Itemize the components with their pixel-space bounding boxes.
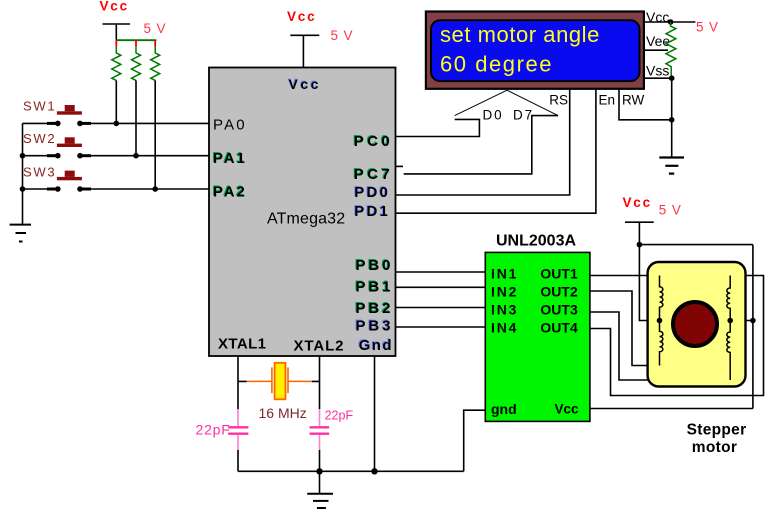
svg-text:16 MHz: 16 MHz <box>259 405 307 421</box>
resistor R3 <box>151 40 160 189</box>
svg-text:D0: D0 <box>483 108 504 123</box>
power symbol VCC2 bar <box>290 34 319 36</box>
crystal X1 ticks <box>238 380 320 382</box>
wire LCD Vee <box>644 49 668 51</box>
node LCD Vss junction <box>669 75 675 81</box>
wire VCC2 to chip <box>302 35 304 67</box>
wire XTAL1 down <box>237 356 239 409</box>
svg-text:En: En <box>599 93 616 108</box>
wire ground stub <box>319 471 321 494</box>
svg-text:IN2: IN2 <box>491 283 518 299</box>
wire switch common bus <box>22 123 24 224</box>
svg-text:ATmega32: ATmega32 <box>267 211 345 228</box>
svg-text:SW2: SW2 <box>23 131 56 146</box>
stepper motor body <box>648 262 746 387</box>
svg-text:SW1: SW1 <box>23 99 56 114</box>
wire C2 to rail <box>319 450 321 471</box>
svg-text:Vcc: Vcc <box>287 9 316 24</box>
svg-text:IN1: IN1 <box>491 265 518 281</box>
svg-text:IN3: IN3 <box>491 301 518 317</box>
svg-text:PB1: PB1 <box>356 279 394 296</box>
wire PB3 to IN4 <box>396 326 486 328</box>
svg-text:PA1: PA1 <box>213 150 247 167</box>
svg-text:gnd: gnd <box>491 401 517 417</box>
wire PB1 to IN2 <box>396 286 486 288</box>
motor rotor <box>673 302 717 346</box>
wire U2 Vcc pin <box>590 408 753 410</box>
svg-text:Vcc: Vcc <box>623 195 652 210</box>
wire PB0 to IN1 <box>396 271 486 273</box>
svg-text:5 V: 5 V <box>696 20 719 35</box>
svg-text:60 degree: 60 degree <box>440 52 553 77</box>
node coil L centre tap <box>657 318 663 324</box>
svg-text:SW3: SW3 <box>23 164 56 179</box>
pin stub PC7 <box>396 165 404 167</box>
switch SW3 button <box>57 171 82 181</box>
svg-text:22pF: 22pF <box>196 422 231 438</box>
node junction R3/SW3 <box>152 186 158 192</box>
coil L (motor) <box>660 276 663 366</box>
node rail/XTAL2 <box>316 468 322 474</box>
switch SW3 contacts <box>23 186 210 192</box>
svg-text:5 V: 5 V <box>331 28 354 43</box>
node bus/SW3 <box>20 186 26 192</box>
wire Gnd pin down <box>374 356 376 471</box>
node junction R2/SW2 <box>133 153 139 159</box>
crystal X1 body <box>275 363 286 400</box>
ground (switches) <box>10 225 31 242</box>
wire Vss to ground <box>671 78 673 157</box>
wire OUT4 to coil R top <box>590 276 764 396</box>
svg-text:Vcc: Vcc <box>288 76 320 92</box>
ground (crystal rail) <box>307 494 333 508</box>
wire LCD Vss <box>644 77 672 79</box>
wire OUT2 to coil L bottom <box>590 291 660 366</box>
svg-text:UNL2003A: UNL2003A <box>496 233 576 250</box>
svg-text:Stepper: Stepper <box>687 422 747 439</box>
node bus/SW2 <box>20 153 26 159</box>
capacitor C2 lead pink <box>319 409 321 426</box>
svg-text:RS: RS <box>549 93 568 108</box>
svg-text:RW: RW <box>622 93 645 108</box>
svg-text:PA2: PA2 <box>213 183 247 200</box>
LCD data bus fan <box>455 90 558 115</box>
wire VCC3 down to tap L <box>639 222 659 320</box>
switch SW1 button <box>57 105 82 115</box>
ground (LCD) <box>659 158 684 174</box>
node junction R1/SW1 <box>114 121 120 127</box>
wire D0 arrow to PC0 <box>396 119 480 136</box>
node RW junction <box>669 117 675 123</box>
wire PB2 to IN3 <box>396 307 486 309</box>
svg-text:5 V: 5 V <box>659 203 682 218</box>
wire ground rail <box>238 470 464 472</box>
svg-text:motor: motor <box>692 439 737 456</box>
node rail/Gnd <box>371 468 377 474</box>
LCD module outer frame <box>426 12 644 89</box>
node tap R vertical junction <box>750 318 756 324</box>
svg-text:PA0: PA0 <box>213 117 247 134</box>
svg-text:XTAL1: XTAL1 <box>218 336 266 353</box>
svg-text:PB2: PB2 <box>356 300 394 317</box>
svg-text:PD1: PD1 <box>354 203 390 220</box>
capacitor C1 lead pink <box>237 409 239 426</box>
wire En to PD1 <box>396 89 596 213</box>
wire pull-up rail (green) <box>116 39 156 41</box>
switch SW2 contacts <box>23 153 210 159</box>
wire RW to Vss net <box>619 89 672 120</box>
svg-text:set motor angle: set motor angle <box>440 22 600 47</box>
svg-text:PB0: PB0 <box>356 257 394 274</box>
wire U2 gnd pin <box>464 410 486 471</box>
wire C1 to rail <box>237 450 239 471</box>
capacitor C1 lead pink lower <box>237 435 239 450</box>
svg-text:Vss: Vss <box>646 63 669 79</box>
node VCC3 branch <box>637 242 643 248</box>
capacitor C1 plates <box>228 427 248 433</box>
capacitor C2 plates <box>310 427 330 433</box>
wire VCC3 branch to right <box>639 244 753 246</box>
wire OUT3 to coil R bottom <box>590 312 730 380</box>
svg-text:PC7: PC7 <box>354 166 393 183</box>
power symbol VCC3 bar <box>625 221 654 223</box>
wire D7 arrow to PC7 <box>404 116 558 174</box>
switch SW1 contacts <box>23 121 210 127</box>
switch SW2 button <box>57 137 82 147</box>
crystal X1 leads (orange) <box>247 380 312 382</box>
IC U2 UNL2003A body <box>485 252 590 421</box>
svg-text:PB3: PB3 <box>356 317 394 334</box>
resistor R2 <box>132 40 141 156</box>
IC U1 ATmega32 body <box>209 68 396 357</box>
svg-text:PC0: PC0 <box>354 133 393 150</box>
coil R (motor) <box>727 276 730 381</box>
svg-text:Vcc: Vcc <box>555 402 580 417</box>
power symbol VCC1 bar <box>103 23 131 25</box>
capacitor C2 lead pink lower <box>319 435 321 450</box>
crystal X1 plates <box>272 367 288 393</box>
LCD screen <box>431 20 640 81</box>
resistor R1 <box>112 40 121 123</box>
node LCD Vcc junction <box>668 19 674 25</box>
wire tap R <box>730 320 753 322</box>
svg-text:Vcc: Vcc <box>100 0 129 14</box>
svg-text:Vee: Vee <box>646 33 670 49</box>
svg-text:OUT2: OUT2 <box>540 283 578 299</box>
svg-text:5 V: 5 V <box>144 21 167 36</box>
svg-text:OUT4: OUT4 <box>540 319 578 335</box>
svg-text:XTAL2: XTAL2 <box>294 338 345 355</box>
svg-text:OUT3: OUT3 <box>540 301 578 317</box>
wire OUT1 to coil L top <box>590 275 660 277</box>
svg-text:PD0: PD0 <box>354 184 390 201</box>
resistor contrast (LCD) <box>666 22 676 78</box>
wire VCC1 down <box>115 24 117 40</box>
svg-text:OUT1: OUT1 <box>540 265 578 281</box>
wire XTAL2 down <box>319 356 321 409</box>
wire LCD Vcc <box>644 21 696 23</box>
wire motor right vertical <box>752 245 754 409</box>
wire RS to PD0 <box>396 89 570 195</box>
node coil R centre tap <box>727 318 733 324</box>
svg-text:IN4: IN4 <box>491 319 518 335</box>
svg-text:22pF: 22pF <box>325 409 354 423</box>
svg-text:Gnd: Gnd <box>359 337 393 354</box>
svg-text:D7: D7 <box>513 108 534 123</box>
